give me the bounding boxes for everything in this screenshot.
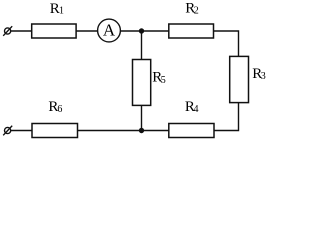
resistor R4: [169, 124, 214, 138]
wire top: terminal to R1: [11, 30, 32, 32]
resistor R1: [32, 24, 76, 38]
wire bottom: R6 to terminal: [11, 130, 32, 132]
resistor R3: [230, 56, 249, 102]
resistor R6: [32, 124, 78, 138]
terminal T2 (bottom left input): [3, 126, 12, 136]
svg-text:4: 4: [194, 104, 199, 115]
ammeter A: [98, 19, 121, 42]
svg-text:5: 5: [161, 75, 166, 86]
wire: ammeter to R2 (through node): [120, 30, 168, 32]
node top junction: [139, 28, 144, 33]
wire: R3 down to bottom-right corner: [214, 103, 239, 131]
svg-text:1: 1: [59, 5, 64, 16]
node bottom junction: [139, 128, 144, 133]
wire: R2 to top-right corner and down to R3: [214, 31, 239, 56]
wire: R1 to ammeter: [76, 30, 98, 32]
svg-text:A: A: [103, 21, 116, 40]
wire bottom: R4 to node to R6: [78, 130, 169, 132]
resistor R5: [133, 60, 151, 106]
resistor R2: [169, 24, 214, 38]
svg-text:3: 3: [261, 71, 266, 82]
wire: top node down to R5: [141, 31, 143, 60]
wire: R5 down to bottom node: [141, 105, 143, 130]
svg-text:6: 6: [57, 104, 62, 115]
svg-text:2: 2: [194, 6, 199, 17]
terminal T1 (top left input): [3, 26, 12, 36]
